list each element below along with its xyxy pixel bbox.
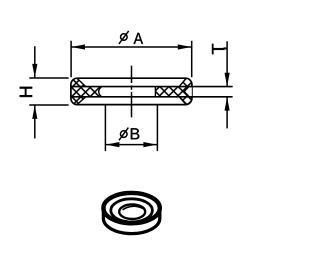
dimension A arrow right [178,44,191,49]
label B [131,128,140,139]
washer recess ellipse [111,199,153,222]
washer top face outer ellipse [103,193,159,223]
dimension H arrow up [32,105,37,119]
center line [131,66,133,118]
washer bore rim ellipse [119,204,145,219]
white bore cap right [184,87,192,96]
dimension T arrow down [225,73,230,87]
dimension B arrow right [143,142,157,147]
right insert boundary [154,87,156,97]
label diameter symbol of A [121,34,128,41]
dimension H extension line top [29,77,68,79]
label H rotated [20,87,32,97]
dimension H extension line bottom [29,104,68,106]
dimension B line [105,144,157,146]
washer 3d silhouette with side wall [103,193,159,234]
label T stem extension [224,47,227,49]
dimension A line [71,46,192,48]
right chamfer contour bottom [179,97,186,105]
metal insert band top line [71,86,233,88]
dimension A extension line left [70,41,72,77]
dimension A arrow left [72,44,85,49]
dimension H arrow down [32,64,37,78]
dimension T arrow up [225,97,230,111]
right bore cap X contour [184,87,189,96]
dimension T line lower [226,97,228,128]
dimension B extension line right [156,105,158,151]
left chamfer contour top [77,78,86,86]
dimension H line upper [34,46,36,77]
hatched rubber section left [69,77,102,106]
label T rotated [212,44,224,54]
left bore cap arc [99,87,102,97]
left chamfer contour bottom [77,97,86,105]
hatched rubber section right [155,78,193,106]
seal cross-section outer body [71,78,192,104]
dimension B extension line left [104,105,106,151]
dimension T line upper [226,41,228,86]
metal insert band bottom line [71,96,233,98]
dimension H line lower [34,105,36,138]
label A [134,33,143,44]
dimension B arrow left [106,142,120,147]
washer bore bottom arc [123,206,143,210]
label diameter symbol of B [120,131,127,138]
dimension A extension line right [191,41,193,77]
right chamfer contour top [179,78,186,86]
